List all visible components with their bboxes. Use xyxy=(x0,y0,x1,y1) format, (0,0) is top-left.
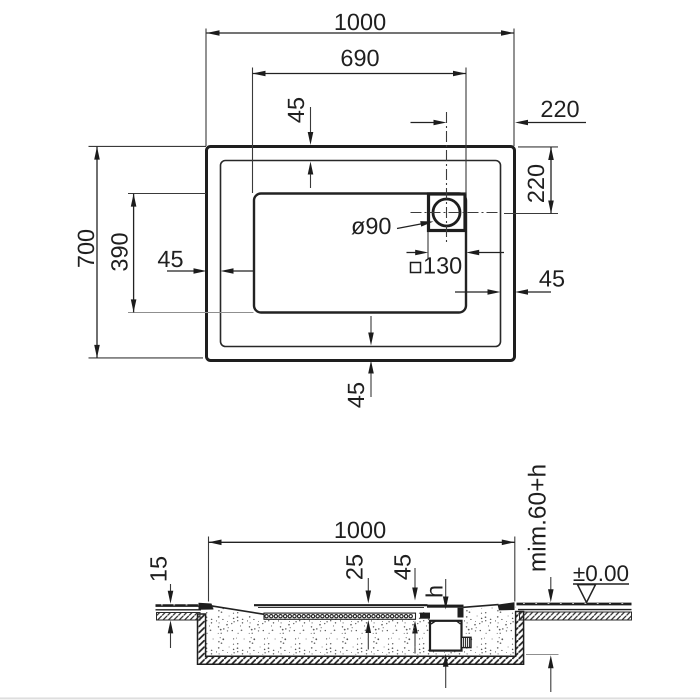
mortar / tray body speckle fill xyxy=(206,604,516,655)
inner basin rectangle xyxy=(254,194,466,313)
svg-text:220: 220 xyxy=(523,164,549,203)
level mark plus/minus 0.00 xyxy=(573,561,629,603)
tray rim left (section cut lip) xyxy=(199,603,214,610)
recess (niche) walls and slab, hatched xyxy=(198,612,524,665)
svg-text:690: 690 xyxy=(340,45,379,71)
dimension mim.60+h (recess depth) xyxy=(525,464,559,692)
dimension 45 (plan left edge) xyxy=(157,246,253,274)
middle rim step rectangle xyxy=(221,161,501,347)
svg-text:25: 25 xyxy=(342,554,368,580)
dimension 1000 (plan top) xyxy=(206,9,514,146)
dimension 220 (plan right side, vertical) xyxy=(504,147,558,214)
dimension h (drain cover) xyxy=(422,579,449,610)
svg-text:1000: 1000 xyxy=(334,517,386,543)
drain centerline horizontal xyxy=(411,212,500,214)
svg-text:15: 15 xyxy=(146,556,172,582)
drain trap body xyxy=(430,621,462,651)
dimension 690 (plan) xyxy=(253,45,467,194)
drain cover right foot xyxy=(458,608,464,618)
svg-text:±0.00: ±0.00 xyxy=(573,561,629,586)
svg-text:45: 45 xyxy=(539,266,565,292)
svg-text:700: 700 xyxy=(73,229,99,268)
svg-text:h: h xyxy=(422,585,448,598)
svg-text:1000: 1000 xyxy=(334,9,386,35)
label diameter 90 with leader xyxy=(351,213,434,239)
svg-text:45: 45 xyxy=(283,97,309,123)
dimension 25 (tray inner depth) xyxy=(342,554,372,650)
dimension 45 (tray depth) xyxy=(390,554,418,654)
drain outlet stub (ribbed) xyxy=(462,637,472,647)
svg-text:45: 45 xyxy=(343,382,369,408)
svg-text:ø90: ø90 xyxy=(351,213,392,239)
tray rim right (section cut lip) xyxy=(498,602,515,610)
dimension 45 (plan top edge) xyxy=(283,97,313,188)
drain centerline vertical xyxy=(446,112,448,245)
drain circle xyxy=(433,199,460,226)
faint bottom image edge xyxy=(0,697,700,699)
dimension 220 (plan top right) xyxy=(411,96,587,125)
right floor tile layer xyxy=(517,604,632,610)
drain cover plate xyxy=(427,605,464,608)
tray top surface lines xyxy=(211,605,499,615)
arrow below drain (slab reference) xyxy=(443,654,449,688)
left floor tile layer xyxy=(156,605,205,610)
svg-text:45: 45 xyxy=(390,554,416,580)
left floor screed layer (hatched) xyxy=(157,613,201,621)
dimension 700 (plan left, vertical) xyxy=(73,146,206,358)
drain cover left foot xyxy=(420,613,430,619)
svg-text:390: 390 xyxy=(107,232,133,271)
dimension 390 (plan, vertical) xyxy=(107,194,254,313)
dimension 15 (floor build-up) xyxy=(146,556,174,648)
dimension 45 (plan right edge) xyxy=(455,266,565,295)
svg-text:130: 130 xyxy=(423,253,462,279)
svg-text:220: 220 xyxy=(540,96,579,122)
drain square frame xyxy=(429,194,466,231)
dimension square-130 (drain) xyxy=(407,232,505,279)
dimension 1000 (section) xyxy=(209,517,515,602)
svg-text:mim.60+h: mim.60+h xyxy=(525,464,552,572)
anti-slip textured strip (circle chain) xyxy=(264,613,416,619)
right floor screed layer (hatched) xyxy=(520,612,632,620)
svg-text:45: 45 xyxy=(157,246,183,272)
outer tray rim rectangle xyxy=(207,147,515,361)
dimension 45 (plan bottom edge) xyxy=(343,316,374,408)
